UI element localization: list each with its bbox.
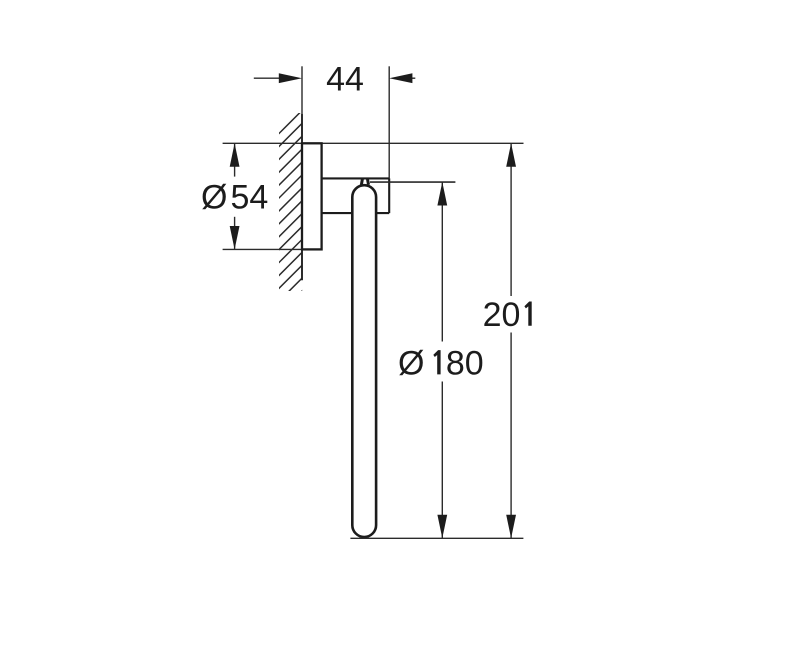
extension line bottom of plate (D54) xyxy=(223,248,302,250)
extension line top (y=143.3, shared by D54 and 201) xyxy=(223,142,524,144)
arm top edge xyxy=(322,177,390,179)
dimension line 201 upper segment xyxy=(510,143,512,296)
dimension line 44 right tail xyxy=(411,77,416,79)
svg-text:44: 44 xyxy=(326,60,364,98)
dimension line 201 lower segment xyxy=(510,333,512,539)
arm right edge xyxy=(388,178,390,213)
extension line bottom (shared by D180 and 201) xyxy=(350,537,523,539)
wall line xyxy=(301,114,303,280)
svg-text:Ø: Ø xyxy=(398,344,424,382)
dimension line D180 upper segment xyxy=(441,182,443,342)
wall plate (escutcheon, side view) xyxy=(302,143,322,249)
extension line 44 right xyxy=(388,66,390,178)
arrowhead D54 up xyxy=(230,143,240,167)
extension line D180 top xyxy=(370,181,455,183)
ring pivot right mark xyxy=(368,179,369,185)
arrowhead 44 right (points left) xyxy=(389,73,412,83)
dimension line D180 lower segment xyxy=(441,382,443,539)
svg-text:20: 20 xyxy=(483,296,521,334)
extension line 44 left (wall face) xyxy=(301,66,303,114)
dimension line 44 left tail xyxy=(254,77,281,79)
arrowhead D54 down xyxy=(230,226,240,250)
svg-text:80: 80 xyxy=(446,344,484,382)
arm bottom edge xyxy=(322,212,390,214)
svg-text:Ø54: Ø54 xyxy=(201,178,268,216)
arrowhead D180 down xyxy=(437,515,447,539)
arrowhead 201 down xyxy=(506,515,516,539)
arrowhead 201 up xyxy=(506,143,516,167)
towel ring (side view) xyxy=(352,185,376,537)
dimension line D54 upper segment xyxy=(234,143,236,176)
wall hatching xyxy=(274,106,307,320)
arrowhead 44 left (points right) xyxy=(279,73,302,83)
dimension line D54 lower segment xyxy=(234,217,236,250)
arrowhead D180 up xyxy=(437,182,447,206)
ring pivot left mark xyxy=(361,179,362,185)
